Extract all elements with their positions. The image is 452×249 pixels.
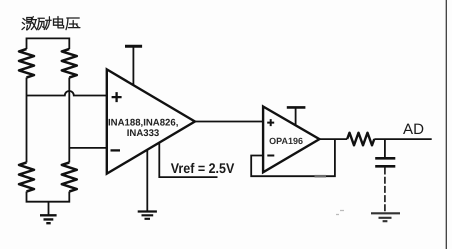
ground (capacitor, faint) xyxy=(371,213,400,221)
wire bridge bottom xyxy=(27,192,70,202)
svg-text:OPA196: OPA196 xyxy=(269,136,303,146)
watermark smudge on feedback wire xyxy=(315,175,327,178)
border line right xyxy=(445,0,447,249)
op-amp U1 INA188,INA826,INA333 xyxy=(107,69,195,173)
svg-text:Vref = 2.5V: Vref = 2.5V xyxy=(171,160,235,176)
resistor R5 (output series) xyxy=(347,133,374,146)
resistor R2 (bridge top-right) xyxy=(62,49,77,78)
resistor R1 (bridge top-left) xyxy=(19,49,34,78)
svg-text:INA188,INA826,: INA188,INA826, xyxy=(108,117,179,128)
svg-text:AD: AD xyxy=(403,121,424,138)
power VCC U2 xyxy=(287,107,306,124)
resistor R3 (bridge bottom-left) xyxy=(19,163,34,192)
wire U1 output to U2 + input xyxy=(195,121,263,123)
wire resistor to AD xyxy=(374,138,431,140)
capacitor C1 xyxy=(375,139,395,166)
wire capacitor to ground (faint) xyxy=(384,168,386,213)
power VCC U1 xyxy=(125,46,142,85)
wire U2 feedback loop (output to - input) xyxy=(251,139,335,176)
op-amp U2 OPA196 xyxy=(263,107,319,173)
resistor R4 (bridge bottom-right) xyxy=(62,163,77,192)
wire bridge top xyxy=(27,38,70,49)
wire Vref stub xyxy=(159,143,217,178)
wire bridge right node to U1 - input xyxy=(69,147,107,149)
wire U2 output xyxy=(319,138,347,140)
wire bridge left node to U1 + input (hops over right branch) xyxy=(27,91,107,95)
svg-text:INA333: INA333 xyxy=(127,128,160,139)
wire left branch xyxy=(26,78,28,163)
label 激励电压 (excitation voltage) xyxy=(22,17,80,31)
wire right branch xyxy=(68,78,70,163)
ground (bridge) xyxy=(40,202,57,224)
ground (U1) xyxy=(138,150,157,219)
